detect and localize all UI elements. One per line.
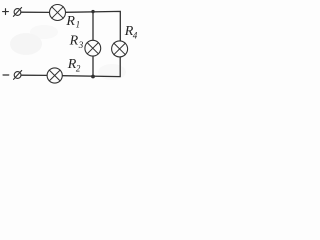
- wire T1 to R1: [21, 11, 50, 13]
- svg-text:4: 4: [133, 30, 138, 40]
- svg-text:3: 3: [78, 40, 84, 50]
- label R4: [124, 24, 138, 40]
- plus sign: [3, 9, 9, 15]
- wire R3 to bottom node: [92, 56, 94, 77]
- label R3: [69, 34, 84, 51]
- wire R4 down and bottom rail to R2: [63, 57, 121, 77]
- label R1: [65, 14, 80, 30]
- svg-text:R: R: [69, 34, 79, 49]
- node junction bottom: [91, 75, 95, 79]
- svg-text:R: R: [65, 14, 75, 29]
- wire R1 to top-right corner down to R4: [66, 11, 121, 41]
- lamp R3: [85, 40, 101, 56]
- lamp R2: [47, 68, 62, 83]
- wire T2 to R2: [21, 74, 47, 76]
- label R2: [67, 57, 81, 74]
- minus sign: [3, 74, 9, 76]
- terminal T1 (+): [13, 8, 21, 17]
- svg-text:1: 1: [76, 20, 81, 30]
- lamp R1: [50, 5, 66, 21]
- wire top node to R3: [92, 12, 94, 41]
- node junction top: [91, 10, 94, 13]
- terminal T2 (-): [14, 71, 22, 80]
- lamp R4: [112, 41, 128, 57]
- svg-text:2: 2: [76, 64, 81, 74]
